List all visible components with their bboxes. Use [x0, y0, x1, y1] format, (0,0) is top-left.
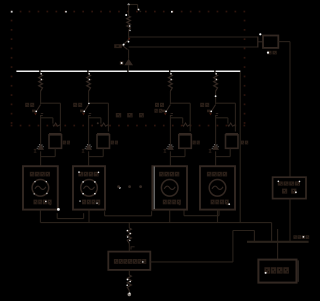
shadow line V1 right edge	[57, 167, 59, 210]
wire gate branch	[89, 117, 101, 119]
wire box bottom	[54, 148, 56, 156]
label D4 numeral	[209, 148, 212, 151]
ellipsis dots	[117, 185, 120, 188]
transistor Q1	[36, 105, 41, 113]
ammeter U1	[263, 36, 278, 48]
wire gate branch	[41, 117, 53, 119]
wire	[128, 5, 130, 17]
wire source bottom	[217, 210, 219, 223]
resistor R9	[127, 228, 131, 244]
cell 2 column wire	[88, 72, 90, 75]
wire bus sources	[41, 222, 272, 224]
wire source bottom	[39, 210, 41, 223]
ground bus	[247, 241, 309, 243]
terminal node OUT	[128, 293, 132, 297]
wire bus right leg	[271, 223, 273, 242]
wire drain branch	[170, 102, 190, 104]
wire	[128, 291, 130, 293]
label A1	[267, 51, 271, 55]
label V2 value	[82, 200, 86, 205]
diode D0	[124, 59, 133, 66]
diode D2	[85, 144, 92, 150]
wire	[128, 31, 130, 40]
white summing bus	[16, 70, 240, 72]
wire drain branch	[216, 102, 236, 104]
resistor R4	[214, 75, 218, 92]
wire drain branch	[41, 102, 61, 104]
wire jumper V1-V2	[56, 213, 58, 218]
filter box U2	[108, 252, 150, 270]
voltage source V2	[73, 166, 105, 209]
label V4 name	[207, 172, 212, 177]
label multiplier	[32, 110, 35, 113]
label D1 numeral	[34, 148, 37, 151]
label D2 numeral	[82, 148, 85, 151]
label 17k	[241, 141, 244, 145]
resistor box 17k R5	[49, 133, 62, 135]
junction bracket	[257, 37, 259, 48]
label V3 name	[159, 172, 164, 177]
label V2 name	[78, 172, 83, 177]
wire output top	[128, 223, 130, 228]
cell 4 column wire	[215, 72, 217, 75]
label Qb2	[73, 103, 77, 107]
label Qb1	[25, 103, 29, 107]
wire drain branch	[89, 102, 109, 104]
diode D4	[212, 144, 219, 150]
resistor small r2	[101, 123, 109, 126]
voltage source V3	[152, 166, 187, 209]
wire net B	[129, 46, 258, 48]
label V1 name	[30, 172, 35, 177]
junction dot	[97, 122, 99, 124]
label 17k	[193, 141, 196, 145]
wire box bottom	[102, 148, 104, 156]
battery box B1	[258, 260, 296, 283]
voltage source V4	[200, 166, 235, 209]
resistor box 17k R6	[97, 133, 110, 135]
wire	[128, 244, 130, 252]
resistor small r1	[53, 123, 61, 126]
label multiplier	[207, 110, 210, 113]
wire gate branch	[170, 117, 182, 119]
resistor R3	[169, 75, 173, 92]
labels M row	[116, 113, 121, 117]
resistor R0	[127, 16, 131, 31]
wire source bottom	[88, 210, 90, 223]
sparkle dots V2	[82, 181, 84, 183]
wire box bottom	[184, 148, 186, 156]
junction ticks on bus	[39, 71, 41, 73]
wire	[289, 199, 291, 242]
wire	[278, 41, 290, 43]
cell 1 column wire	[40, 72, 42, 75]
diode D3	[167, 144, 174, 150]
wire battery stub	[277, 229, 279, 260]
wire summing drop	[239, 72, 241, 223]
label 17k	[63, 141, 66, 145]
label V4 value	[211, 200, 215, 205]
voltage source V1	[23, 166, 58, 209]
wire	[128, 65, 130, 71]
wire source bottom	[169, 210, 171, 223]
diode D1	[37, 144, 44, 150]
resistor box 17k R8	[226, 133, 239, 135]
label Qb3	[155, 103, 159, 107]
transistor Q4	[211, 105, 216, 113]
cell 3 column wire	[169, 72, 171, 75]
resistor R10	[127, 275, 131, 291]
transistor Q3	[165, 105, 170, 113]
transistor M0	[123, 40, 129, 50]
dotted border frame	[11, 11, 13, 13]
wire box bottom	[229, 148, 231, 156]
label Qb4	[200, 103, 204, 107]
node flag dots	[128, 4, 130, 6]
resistor R1	[39, 75, 43, 92]
wire	[128, 270, 130, 275]
wire jumper V3-V4	[183, 211, 185, 216]
wire net A	[129, 36, 258, 38]
wire jumper V2-V3	[104, 211, 106, 216]
wire output right	[150, 261, 233, 263]
wire top connector	[129, 4, 138, 6]
sparkle dots V1	[34, 181, 35, 182]
label V1 value	[34, 200, 38, 205]
resistor small r3	[183, 123, 191, 126]
label multiplier	[162, 110, 165, 113]
resistor small r4	[228, 123, 236, 126]
transistor Q2	[84, 105, 89, 113]
load box R-load	[273, 177, 306, 198]
wire gate branch	[216, 117, 228, 119]
label 4x group	[154, 109, 157, 113]
label V3 value	[163, 200, 167, 205]
shadow line V3 left edge	[153, 167, 155, 210]
label multiplier	[80, 110, 83, 113]
resistor R2	[87, 75, 91, 92]
label GND	[293, 235, 297, 239]
resistor box 17k R7	[179, 133, 192, 135]
label 17k	[111, 141, 114, 145]
label U2 text	[114, 259, 118, 264]
label D3 numeral	[164, 148, 167, 151]
